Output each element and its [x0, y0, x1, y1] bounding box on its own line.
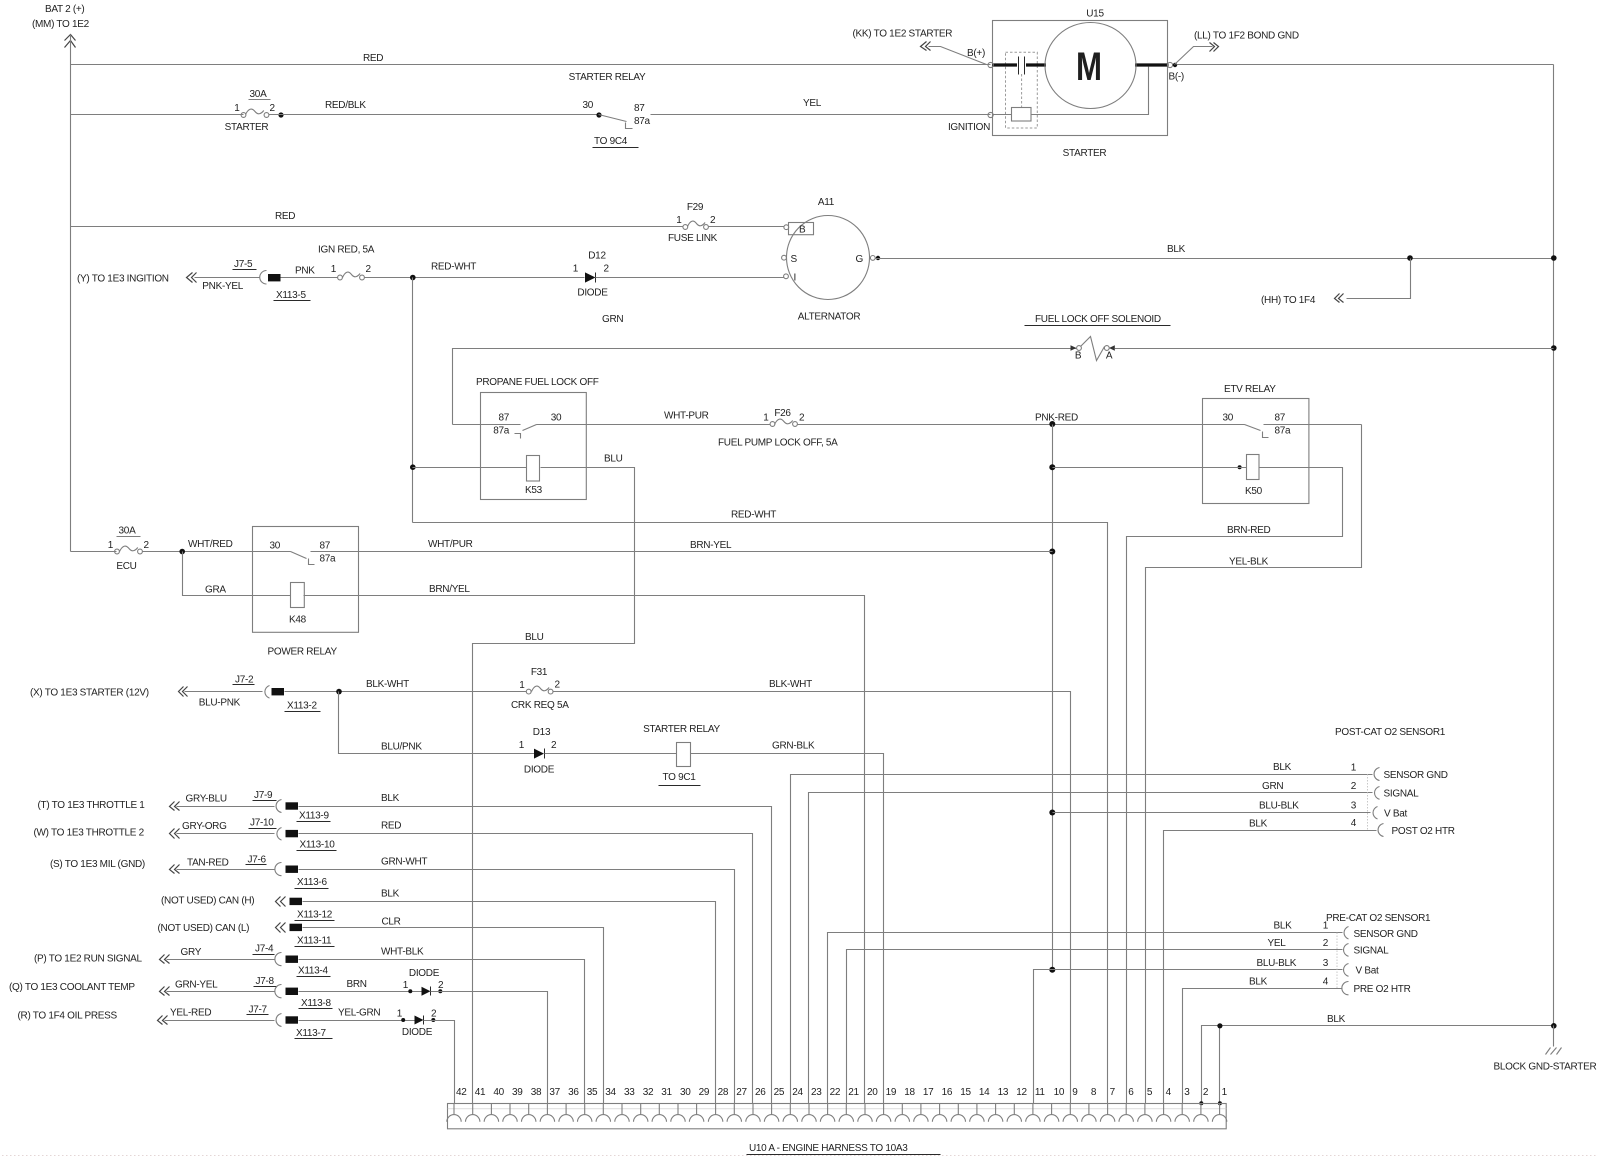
svg-text:30A: 30A [119, 526, 137, 537]
svg-text:A: A [1106, 351, 1113, 362]
svg-text:BLK: BLK [1274, 921, 1293, 932]
wire column PNK-RED vertical [1052, 425, 1054, 970]
svg-text:2: 2 [1203, 1087, 1209, 1098]
svg-text:K48: K48 [289, 615, 307, 626]
svg-text:YEL: YEL [803, 98, 822, 109]
svg-text:22: 22 [830, 1087, 841, 1098]
svg-text:X113-7: X113-7 [296, 1028, 326, 1039]
svg-text:3: 3 [1184, 1087, 1190, 1098]
ground BLOCK GND-STARTER [1553, 1026, 1555, 1047]
svg-text:BLK-WHT: BLK-WHT [769, 679, 812, 690]
svg-text:BLOCK GND-STARTER: BLOCK GND-STARTER [1494, 1062, 1597, 1073]
svg-text:GRY-ORG: GRY-ORG [182, 821, 227, 832]
svg-text:27: 27 [736, 1087, 747, 1098]
svg-text:U15: U15 [1086, 9, 1104, 20]
node junction dot PNK row [410, 275, 416, 281]
svg-text:J7-8: J7-8 [256, 976, 275, 987]
svg-text:GRY: GRY [181, 947, 202, 958]
wire PRE signal YEL from pin21 [847, 950, 1343, 1104]
svg-text:BLK: BLK [1167, 244, 1186, 255]
svg-text:24: 24 [792, 1087, 803, 1098]
svg-text:BLK: BLK [1249, 819, 1268, 830]
wire D13 to starter relay coil [545, 753, 677, 755]
svg-text:J7-4: J7-4 [255, 944, 274, 955]
svg-text:BLU-BLK: BLU-BLK [1257, 958, 1297, 969]
svg-text:PNK-YEL: PNK-YEL [202, 281, 243, 292]
svg-text:YEL-BLK: YEL-BLK [1229, 557, 1269, 568]
svg-text:30: 30 [680, 1087, 691, 1098]
svg-text:1: 1 [573, 264, 579, 275]
relay K50 coil [1247, 455, 1260, 480]
svg-text:D12: D12 [588, 251, 606, 262]
svg-text:J7-6: J7-6 [248, 855, 267, 866]
wire right vertical rail (B- / ground) [1553, 65, 1555, 1026]
svg-text:30A: 30A [250, 89, 268, 100]
svg-text:PNK-RED: PNK-RED [1035, 413, 1078, 424]
svg-text:(KK) TO 1E2 STARTER: (KK) TO 1E2 STARTER [853, 29, 953, 40]
svg-text:12: 12 [1016, 1087, 1027, 1098]
wire BLK block ground from pins 1,2 [1202, 1026, 1554, 1104]
svg-text:(Q) TO 1E3 COOLANT TEMP: (Q) TO 1E3 COOLANT TEMP [9, 982, 135, 993]
starter inner dashed solenoid box [1006, 52, 1038, 128]
svg-text:29: 29 [699, 1087, 710, 1098]
svg-text:2: 2 [270, 103, 276, 114]
svg-text:RED-WHT: RED-WHT [731, 510, 776, 521]
svg-text:25: 25 [774, 1087, 785, 1098]
svg-text:IGN RED, 5A: IGN RED, 5A [318, 245, 375, 256]
wire BAT2 vertical bus [70, 35, 72, 552]
svg-text:WHT/PUR: WHT/PUR [428, 539, 473, 550]
svg-text:14: 14 [979, 1087, 990, 1098]
solenoid symbol [1071, 345, 1077, 350]
wire PRE O2 HTR BLK from pin3 [1183, 989, 1343, 1104]
svg-text:X113-6: X113-6 [297, 877, 327, 888]
wire row R to pin42 [424, 1021, 455, 1104]
starter box [993, 21, 1168, 136]
svg-text:K53: K53 [525, 485, 543, 496]
svg-text:STARTER RELAY: STARTER RELAY [643, 724, 720, 735]
svg-text:BRN/YEL: BRN/YEL [429, 584, 470, 595]
svg-text:F29: F29 [687, 202, 704, 213]
wire GRA to K48 coil [183, 552, 291, 596]
svg-text:J7-9: J7-9 [254, 790, 273, 801]
svg-text:DIODE: DIODE [524, 765, 555, 776]
svg-text:POWER RELAY: POWER RELAY [268, 647, 338, 658]
svg-text:TAN-RED: TAN-RED [187, 858, 229, 869]
svg-text:40: 40 [493, 1087, 504, 1098]
svg-text:SIGNAL: SIGNAL [1354, 946, 1390, 957]
svg-text:WHT-BLK: WHT-BLK [381, 947, 424, 958]
svg-text:31: 31 [661, 1087, 672, 1098]
svg-text:I: I [794, 273, 796, 284]
wire GRN-WHT row S to pin27 [299, 870, 735, 1104]
svg-text:F31: F31 [531, 667, 548, 678]
PRE connector dotted spine [1336, 933, 1338, 989]
svg-text:X113-5: X113-5 [276, 290, 306, 301]
svg-text:(S) TO 1E3 MIL (GND): (S) TO 1E3 MIL (GND) [50, 859, 145, 870]
svg-text:BLU-BLK: BLU-BLK [1259, 801, 1299, 812]
svg-text:6: 6 [1128, 1087, 1134, 1098]
svg-text:ECU: ECU [116, 561, 136, 572]
wire POST sensor gnd BLK from pin24 [791, 775, 1373, 1104]
wire BRN-RED from K50 coil to pin6 [1127, 468, 1343, 1104]
wire POST O2 HTR BLK from pin4 [1164, 831, 1377, 1104]
wire row to starter relay 30 [71, 114, 244, 116]
starter dashed plunger link [1021, 74, 1023, 108]
wire WHT/RED [143, 551, 291, 553]
svg-text:2: 2 [551, 740, 557, 751]
svg-text:9: 9 [1072, 1087, 1078, 1098]
wire ignition internal [993, 67, 1149, 115]
svg-text:TO 9C1: TO 9C1 [663, 772, 697, 783]
node junction dot rail-ground [1551, 1023, 1557, 1029]
scan noise dotted line [2, 1155, 1598, 1157]
svg-text:(NOT USED) CAN (H): (NOT USED) CAN (H) [161, 896, 254, 907]
svg-text:30: 30 [551, 413, 562, 424]
svg-text:87a: 87a [320, 554, 337, 565]
svg-text:3: 3 [1323, 958, 1329, 969]
svg-text:1: 1 [108, 540, 114, 551]
svg-text:X113-11: X113-11 [297, 936, 332, 947]
svg-text:87: 87 [320, 541, 331, 552]
wire PRE V Bat BLU-BLK from pin11 and PNK-RED column [1034, 970, 1343, 1104]
svg-text:BRN-RED: BRN-RED [1227, 525, 1271, 536]
wire RED row W to pin26 [299, 834, 753, 1104]
svg-text:42: 42 [456, 1087, 467, 1098]
svg-text:BRN: BRN [347, 979, 367, 990]
svg-text:RED: RED [275, 211, 295, 222]
svg-text:20: 20 [867, 1087, 878, 1098]
svg-text:X113-4: X113-4 [298, 966, 328, 977]
svg-text:DIODE: DIODE [409, 968, 440, 979]
POST connector dotted spine [1367, 774, 1369, 830]
wire BLK-WHT row X [285, 691, 527, 693]
svg-text:POST-CAT O2 SENSOR1: POST-CAT O2 SENSOR1 [1335, 727, 1446, 738]
wire BRN row Q [299, 991, 422, 993]
svg-text:ALTERNATOR: ALTERNATOR [798, 312, 861, 323]
svg-text:A11: A11 [818, 197, 835, 208]
wire ETV coil feed [1238, 465, 1242, 469]
node junction dot RED/BLK [278, 112, 283, 117]
svg-text:BLK: BLK [1273, 762, 1292, 773]
svg-text:18: 18 [904, 1087, 915, 1098]
svg-text:2: 2 [438, 980, 444, 991]
svg-text:WHT-PUR: WHT-PUR [664, 411, 709, 422]
svg-text:87: 87 [634, 103, 645, 114]
svg-text:X113-9: X113-9 [299, 811, 329, 822]
svg-text:X113-2: X113-2 [287, 701, 317, 712]
svg-text:STARTER: STARTER [1063, 148, 1107, 159]
fuse ECU 30A [71, 551, 117, 553]
svg-text:17: 17 [923, 1087, 934, 1098]
wire PNK-RED [798, 424, 1245, 426]
svg-text:4: 4 [1166, 1087, 1172, 1098]
svg-text:2: 2 [799, 413, 805, 424]
svg-text:39: 39 [512, 1087, 523, 1098]
wire BLK-WHT to pin9 [553, 692, 1071, 1104]
svg-text:RED-WHT: RED-WHT [431, 262, 476, 273]
svg-text:V Bat: V Bat [1356, 966, 1379, 977]
svg-text:V Bat: V Bat [1384, 809, 1407, 820]
wire RED/BLK [269, 114, 599, 116]
svg-text:X113-12: X113-12 [297, 910, 333, 921]
wire POST V Bat BLU-BLK from PNK-RED column [1053, 812, 1371, 814]
svg-text:2: 2 [710, 215, 716, 226]
svg-text:28: 28 [718, 1087, 729, 1098]
wire RED-WHT to D12 [365, 277, 585, 279]
svg-text:13: 13 [998, 1087, 1009, 1098]
svg-text:(W) TO 1E3 THROTTLE 2: (W) TO 1E3 THROTTLE 2 [34, 828, 145, 839]
terminal B(+) [988, 62, 993, 67]
wire GRN to solenoid B [453, 349, 1077, 425]
svg-text:7: 7 [1110, 1087, 1116, 1098]
svg-text:ETV RELAY: ETV RELAY [1224, 384, 1276, 395]
connector U10A strip [448, 1104, 1227, 1129]
svg-text:G: G [856, 254, 864, 265]
wire B(-) to right rail [1177, 64, 1554, 66]
wire POST signal GRN from pin23 [809, 793, 1373, 1104]
svg-text:35: 35 [587, 1087, 598, 1098]
terminal ignition circle [988, 112, 993, 117]
svg-text:BAT 2 (+): BAT 2 (+) [45, 4, 84, 15]
svg-text:BLU: BLU [525, 632, 544, 643]
svg-text:37: 37 [549, 1087, 560, 1098]
wire BLU/PNK to D13 [339, 692, 535, 754]
svg-text:5: 5 [1147, 1087, 1153, 1098]
svg-text:SENSOR GND: SENSOR GND [1354, 929, 1418, 940]
svg-text:87: 87 [1275, 413, 1286, 424]
svg-text:SIGNAL: SIGNAL [1384, 789, 1420, 800]
svg-text:87a: 87a [1275, 426, 1292, 437]
wire solenoid A to right rail [1115, 348, 1554, 350]
wire WHT-BLK row P to pin35 [299, 960, 585, 1104]
svg-text:(LL) TO 1F2 BOND GND: (LL) TO 1F2 BOND GND [1194, 31, 1299, 42]
relay POWER RELAY box [253, 527, 359, 633]
svg-text:M: M [1076, 45, 1102, 89]
svg-text:BLK: BLK [1249, 977, 1268, 988]
svg-text:(R) TO 1F4 OIL PRESS: (R) TO 1F4 OIL PRESS [18, 1011, 118, 1022]
svg-text:B(-): B(-) [1169, 72, 1184, 83]
wire (HH) TO 1F4 branch [1347, 259, 1411, 299]
svg-text:4: 4 [1351, 818, 1357, 829]
wire PNK-YEL stub [195, 277, 260, 279]
node junction dot D13 branch [336, 689, 342, 695]
svg-text:1: 1 [763, 413, 769, 424]
svg-text:BLK: BLK [1327, 1014, 1346, 1025]
wire RED top (BAT2 to starter B+) [71, 64, 991, 66]
svg-text:DIODE: DIODE [402, 1027, 433, 1038]
connector pin cups and stubs [447, 1103, 1227, 1122]
wire RED-WHT from PNK column to pin7 [413, 523, 1108, 1104]
wire row Q to pin37 [431, 992, 548, 1104]
svg-text:11: 11 [1035, 1087, 1046, 1098]
svg-text:YEL: YEL [1268, 938, 1287, 949]
svg-text:16: 16 [942, 1087, 953, 1098]
svg-text:1: 1 [234, 103, 240, 114]
svg-text:CRK REQ 5A: CRK REQ 5A [511, 700, 569, 711]
svg-text:10: 10 [1054, 1087, 1065, 1098]
svg-text:J7-2: J7-2 [235, 675, 254, 686]
svg-text:PROPANE FUEL LOCK OFF: PROPANE FUEL LOCK OFF [476, 377, 599, 388]
svg-text:2: 2 [604, 264, 610, 275]
wire PRE sensor gnd BLK from pin22 [828, 933, 1343, 1104]
wire BLK CAN(H) to pin28 [303, 902, 716, 1104]
svg-text:D13: D13 [533, 727, 551, 738]
svg-text:(Y) TO 1E3 INGITION: (Y) TO 1E3 INGITION [77, 274, 169, 285]
svg-text:POST O2 HTR: POST O2 HTR [1392, 826, 1455, 837]
svg-text:3: 3 [1351, 801, 1357, 812]
svg-text:DIODE: DIODE [577, 288, 608, 299]
svg-text:2: 2 [431, 1009, 437, 1020]
svg-text:GRN: GRN [602, 314, 623, 325]
svg-text:2: 2 [555, 680, 561, 691]
svg-text:87a: 87a [493, 426, 510, 437]
relay K48 coil [291, 583, 305, 608]
svg-text:4: 4 [1323, 977, 1329, 988]
svg-text:PRE O2 HTR: PRE O2 HTR [1354, 984, 1411, 995]
svg-text:(T) TO 1E3 THROTTLE 1: (T) TO 1E3 THROTTLE 1 [38, 800, 146, 811]
svg-text:1: 1 [397, 1009, 403, 1020]
wire BLU from K53 coil [473, 468, 635, 1104]
connector pin numbers [456, 1087, 1228, 1098]
svg-text:STARTER RELAY: STARTER RELAY [569, 72, 646, 83]
svg-text:CLR: CLR [382, 917, 401, 928]
svg-text:1: 1 [403, 980, 409, 991]
svg-text:X113-10: X113-10 [300, 840, 336, 851]
svg-text:GRN: GRN [1262, 781, 1283, 792]
svg-text:1: 1 [676, 215, 682, 226]
svg-text:BLU/PNK: BLU/PNK [381, 742, 422, 753]
wire YEL-BLK from ETV 87 to pin5 [1146, 425, 1362, 1104]
wire BRN/YEL from K48 coil to pin20 [304, 596, 865, 1104]
svg-text:RED: RED [381, 821, 401, 832]
svg-text:34: 34 [605, 1087, 616, 1098]
svg-text:(HH) TO 1F4: (HH) TO 1F4 [1261, 295, 1316, 306]
svg-text:2: 2 [366, 264, 372, 275]
svg-text:B: B [799, 225, 806, 236]
svg-text:RED/BLK: RED/BLK [325, 100, 366, 111]
svg-text:YEL-RED: YEL-RED [170, 1008, 211, 1019]
svg-text:(P) TO 1E2 RUN SIGNAL: (P) TO 1E2 RUN SIGNAL [34, 954, 143, 965]
node junction dot rail-BLK [1551, 255, 1557, 261]
relay K53 coil [527, 456, 540, 482]
svg-text:STARTER: STARTER [225, 122, 269, 133]
svg-text:15: 15 [960, 1087, 971, 1098]
svg-text:GRN-WHT: GRN-WHT [381, 857, 427, 868]
svg-text:1: 1 [1323, 921, 1329, 932]
svg-text:36: 36 [568, 1087, 579, 1098]
wire BLK row T to pin25 [299, 807, 772, 1104]
svg-text:IGNITION: IGNITION [948, 122, 990, 133]
svg-text:SENSOR GND: SENSOR GND [1384, 770, 1448, 781]
svg-text:J7-5: J7-5 [234, 259, 253, 270]
svg-text:GRN-BLK: GRN-BLK [772, 741, 815, 752]
svg-text:BLU: BLU [604, 454, 623, 465]
svg-text:41: 41 [475, 1087, 486, 1098]
svg-text:K50: K50 [1245, 486, 1263, 497]
svg-text:RED: RED [363, 53, 383, 64]
node junction dot rail-solenoid [1551, 345, 1557, 351]
svg-text:PNK: PNK [295, 266, 315, 277]
svg-text:FUSE LINK: FUSE LINK [668, 233, 718, 244]
svg-text:23: 23 [811, 1087, 822, 1098]
svg-text:1: 1 [331, 264, 337, 275]
wire CLR CAN(L) to pin34 [303, 928, 604, 1104]
svg-text:21: 21 [848, 1087, 859, 1098]
svg-text:1: 1 [519, 740, 525, 751]
starter thick B+ bus and capacitor contacts [992, 63, 1017, 66]
svg-text:GRA: GRA [205, 585, 226, 596]
node junction dot PNK-RED column [1049, 421, 1055, 427]
svg-text:8: 8 [1091, 1087, 1097, 1098]
svg-text:FUEL LOCK OFF SOLENOID: FUEL LOCK OFF SOLENOID [1035, 314, 1161, 325]
svg-text:J7-10: J7-10 [250, 818, 274, 829]
svg-text:30: 30 [1222, 413, 1233, 424]
svg-text:F26: F26 [774, 408, 791, 419]
svg-text:BLK-WHT: BLK-WHT [366, 679, 409, 690]
svg-text:1: 1 [519, 680, 525, 691]
svg-text:X113-8: X113-8 [301, 998, 331, 1009]
svg-text:32: 32 [643, 1087, 654, 1098]
arrow up to BAT 2 [65, 35, 76, 48]
svg-text:BLK: BLK [381, 889, 400, 900]
wire D12 to alternator I [596, 277, 784, 279]
svg-text:(X) TO 1E3 STARTER (12V): (X) TO 1E3 STARTER (12V) [30, 688, 149, 699]
svg-text:30: 30 [582, 100, 593, 111]
svg-text:1: 1 [1222, 1087, 1228, 1098]
svg-text:30: 30 [269, 541, 280, 552]
node junction dot GRA branch [179, 549, 185, 555]
wire F29 to alternator B [709, 226, 785, 228]
svg-text:YEL-GRN: YEL-GRN [338, 1008, 380, 1019]
svg-text:1: 1 [1351, 763, 1357, 774]
svg-text:2: 2 [1323, 938, 1329, 949]
starter motor M circle [1045, 23, 1136, 109]
terminal B(-) [1167, 62, 1172, 67]
wire BLK alternator G to right rail [876, 256, 880, 260]
svg-text:(NOT USED) CAN (L): (NOT USED) CAN (L) [158, 923, 250, 934]
svg-text:BRN-YEL: BRN-YEL [690, 540, 732, 551]
svg-text:FUEL PUMP LOCK OFF, 5A: FUEL PUMP LOCK OFF, 5A [718, 438, 838, 449]
svg-text:(MM) TO 1E2: (MM) TO 1E2 [32, 19, 90, 30]
wire GRN-BLK to pin19 [691, 754, 884, 1104]
svg-text:26: 26 [755, 1087, 766, 1098]
wire YEL-GRN row R [299, 1020, 415, 1022]
svg-text:PRE-CAT O2 SENSOR1: PRE-CAT O2 SENSOR1 [1326, 913, 1431, 924]
svg-text:U10 A - ENGINE HARNESS TO 10A3: U10 A - ENGINE HARNESS TO 10A3 [749, 1143, 908, 1154]
svg-text:87a: 87a [634, 116, 651, 127]
svg-text:33: 33 [624, 1087, 635, 1098]
svg-text:BLK: BLK [381, 793, 400, 804]
svg-text:87: 87 [498, 413, 509, 424]
svg-text:2: 2 [1351, 781, 1357, 792]
wire K53 coil feed from PNK row [412, 278, 414, 523]
starter solenoid coil rect [1012, 108, 1032, 122]
svg-text:19: 19 [886, 1087, 897, 1098]
svg-text:S: S [791, 254, 798, 265]
svg-text:B: B [1075, 351, 1082, 362]
svg-text:TO 9C4: TO 9C4 [594, 136, 628, 147]
svg-text:38: 38 [531, 1087, 542, 1098]
svg-text:2: 2 [144, 540, 150, 551]
svg-text:WHT/RED: WHT/RED [188, 539, 233, 550]
node junction dot HH branch [1407, 255, 1413, 261]
svg-text:BLU-PNK: BLU-PNK [199, 698, 241, 709]
svg-text:GRY-BLU: GRY-BLU [186, 794, 227, 805]
wire RED (BAT2 to F29) [71, 226, 683, 228]
svg-text:GRN-YEL: GRN-YEL [175, 980, 218, 991]
svg-text:J7-7: J7-7 [249, 1005, 268, 1016]
